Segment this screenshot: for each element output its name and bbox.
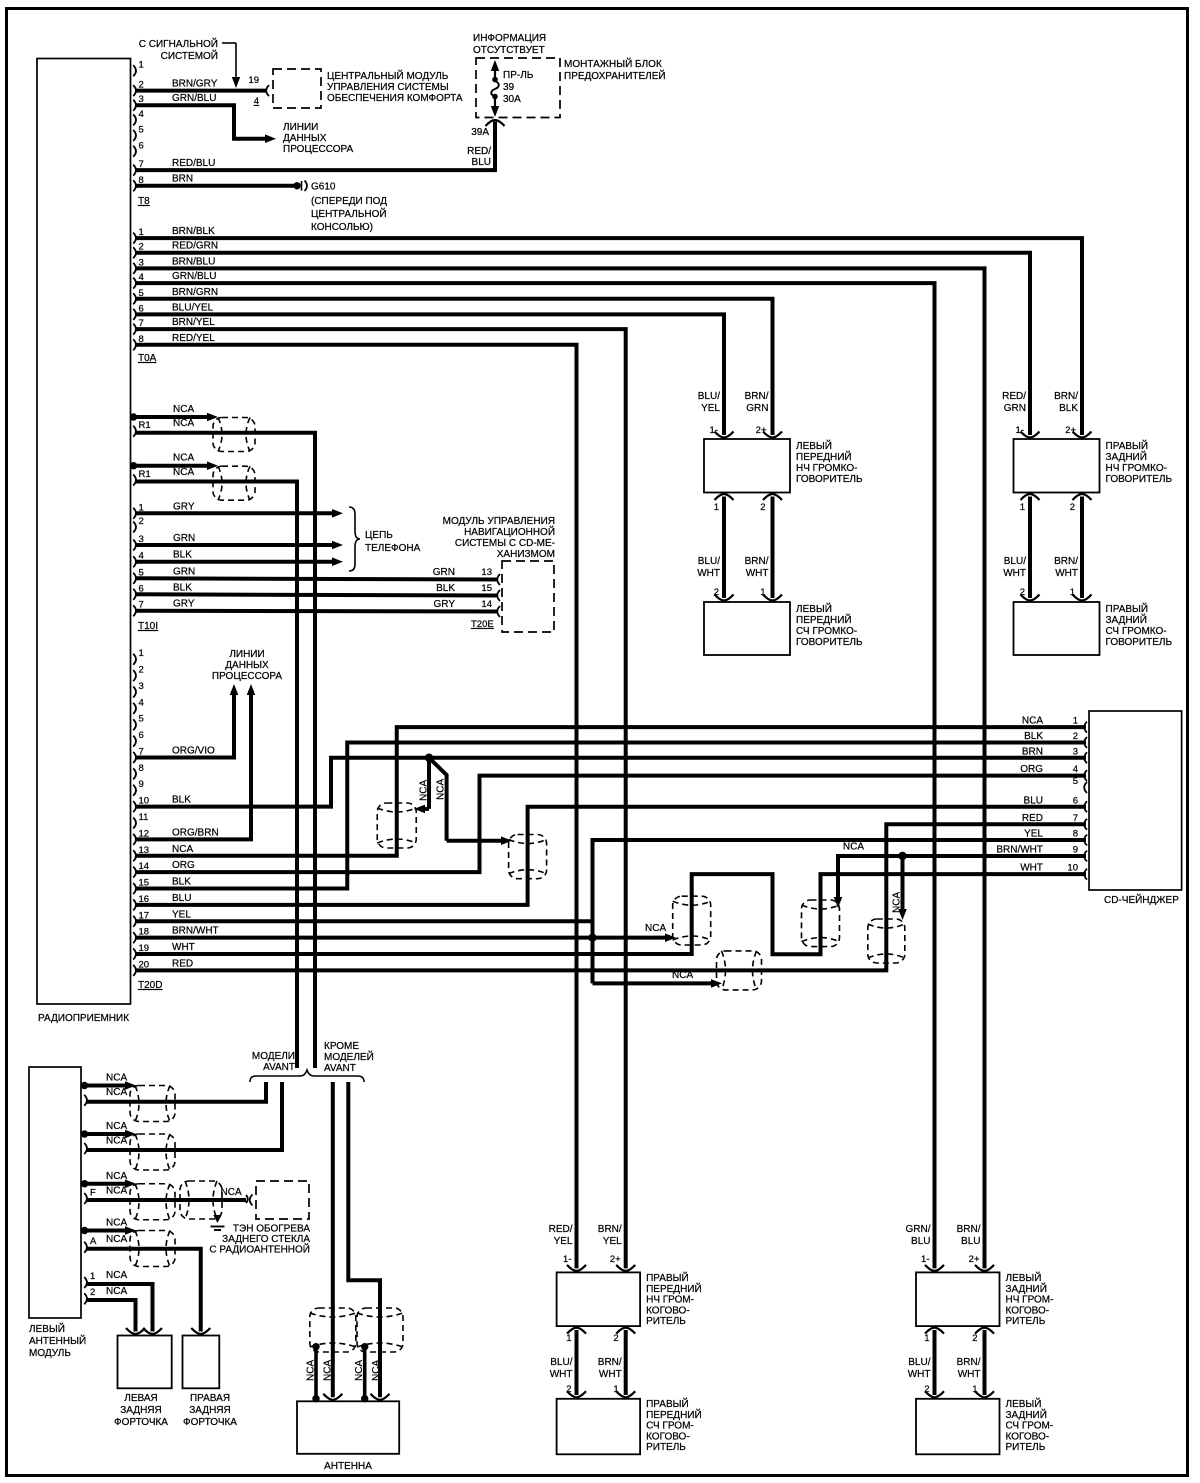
svg-text:СИСТЕМЫ С CD-МЕ-: СИСТЕМЫ С CD-МЕ-: [455, 538, 555, 549]
svg-text:NCA: NCA: [306, 1360, 317, 1381]
svg-text:BLU/: BLU/: [1004, 556, 1026, 567]
svg-text:NCA: NCA: [1022, 716, 1043, 727]
svg-text:ORG: ORG: [172, 860, 195, 871]
aerial lead NCA wire with shield: [130, 413, 137, 420]
svg-text:YEL: YEL: [1024, 829, 1043, 840]
antenna module NCA lead with shield: [81, 1180, 88, 1187]
svg-text:ЗАДНЯЯ: ЗАДНЯЯ: [189, 1405, 230, 1416]
svg-text:ДАННЫХ: ДАННЫХ: [225, 660, 269, 671]
svg-text:1: 1: [566, 1333, 571, 1344]
CD changer pin 6: [1084, 801, 1087, 812]
svg-text:NCA: NCA: [106, 1270, 127, 1281]
svg-text:BLU: BLU: [961, 1236, 980, 1247]
svg-text:11: 11: [139, 812, 149, 823]
svg-text:СЧ ГРОМКО-: СЧ ГРОМКО-: [796, 626, 857, 637]
svg-text:2: 2: [90, 1287, 95, 1298]
svg-text:ЗАДНИЙ: ЗАДНИЙ: [1106, 613, 1147, 626]
svg-text:10: 10: [1067, 863, 1078, 874]
svg-text:ПРОЦЕССОРА: ПРОЦЕССОРА: [212, 671, 282, 682]
svg-text:BLK: BLK: [172, 795, 191, 806]
svg-text:WHT: WHT: [958, 1369, 981, 1380]
svg-text:РИТЕЛЬ: РИТЕЛЬ: [646, 1316, 686, 1327]
rear window heater box (dashed): [256, 1181, 309, 1219]
svg-text:ПЕРЕДНИЙ: ПЕРЕДНИЙ: [796, 613, 852, 626]
junction node on BRN wire: [425, 754, 433, 762]
svg-text:ЗАДНИЙ: ЗАДНИЙ: [1106, 450, 1147, 463]
shield around WHT riser (right): [802, 900, 840, 947]
svg-text:1: 1: [139, 648, 144, 659]
svg-text:13: 13: [481, 567, 492, 578]
svg-text:ЛЕВЫЙ: ЛЕВЫЙ: [1006, 1271, 1042, 1284]
svg-text:30А: 30А: [503, 94, 521, 105]
svg-text:2+: 2+: [610, 1254, 621, 1265]
svg-text:1-: 1-: [921, 1254, 929, 1265]
T20D pin 14: [133, 867, 136, 878]
svg-text:BRN/: BRN/: [598, 1224, 622, 1235]
CD changer pin 8: [1084, 835, 1087, 846]
svg-text:GRN: GRN: [746, 403, 768, 414]
svg-text:GRY: GRY: [173, 599, 195, 610]
svg-text:BRN/: BRN/: [957, 1357, 981, 1368]
svg-text:NCA: NCA: [106, 1136, 127, 1147]
T20D pin 5: [133, 719, 136, 730]
antenna module pin 2 wire: [84, 1293, 87, 1304]
svg-text:КОГОВО-: КОГОВО-: [646, 1431, 690, 1442]
CD changer pin 1: [1084, 722, 1087, 733]
svg-text:NCA: NCA: [173, 467, 194, 478]
svg-text:BRN: BRN: [1022, 746, 1043, 757]
svg-text:УПРАВЛЕНИЯ СИСТЕМЫ: УПРАВЛЕНИЯ СИСТЕМЫ: [327, 82, 449, 93]
svg-text:8: 8: [139, 763, 144, 774]
wires GRN/BLK/GRY to navigation module T20E: [136, 578, 499, 579]
wire GRN/BLU T8 pin3 to processor data lines: [136, 105, 267, 139]
svg-text:КОГОВО-: КОГОВО-: [1006, 1305, 1050, 1316]
svg-text:С РАДИОАНТЕННОЙ: С РАДИОАНТЕННОЙ: [209, 1243, 310, 1256]
svg-text:BRN/: BRN/: [1054, 391, 1078, 402]
wires woofer to midrange: [722, 497, 726, 599]
T8 pin 1: [133, 65, 136, 76]
svg-text:BLK: BLK: [1059, 403, 1078, 414]
T10I pin 1: [133, 508, 136, 519]
svg-text:RED/: RED/: [1002, 391, 1026, 402]
wire non-avant branch to antenna right: [348, 1082, 380, 1397]
svg-text:1: 1: [1073, 716, 1078, 727]
aerial lead NCA wire with shield: [130, 462, 137, 469]
T20D pin 17: [133, 916, 136, 927]
T10I pin 3: [133, 540, 136, 551]
svg-text:ГОВОРИТЕЛЬ: ГОВОРИТЕЛЬ: [1106, 637, 1173, 648]
svg-text:НЧ ГРОМКО-: НЧ ГРОМКО-: [796, 463, 857, 474]
CD changer pin 3: [1084, 752, 1087, 763]
svg-text:ОТСУТСТВУЕТ: ОТСУТСТВУЕТ: [473, 45, 545, 56]
CD changer pin 4: [1084, 770, 1087, 781]
svg-text:1-: 1-: [563, 1254, 571, 1265]
svg-text:ПЕРЕДНИЙ: ПЕРЕДНИЙ: [646, 1282, 702, 1295]
svg-text:РИТЕЛЬ: РИТЕЛЬ: [1006, 1316, 1046, 1327]
wire 6 BLU/YEL to left-front woofer 1-: [136, 314, 725, 435]
wire YEL T20D pin17 joining vertical riser: [136, 919, 593, 923]
svg-text:КОНСОЛЬЮ): КОНСОЛЬЮ): [311, 222, 373, 233]
svg-text:2: 2: [1070, 502, 1075, 513]
svg-text:ЛЕВЫЙ: ЛЕВЫЙ: [1006, 1397, 1042, 1410]
svg-text:RED/: RED/: [467, 146, 491, 157]
svg-text:NCA: NCA: [106, 1218, 127, 1229]
T0A pin 1: [133, 233, 136, 244]
svg-text:BLU/: BLU/: [698, 391, 720, 402]
svg-text:ЛИНИИ: ЛИНИИ: [283, 122, 318, 133]
left rear vent window box: [118, 1336, 172, 1389]
ground G610: [293, 182, 300, 189]
wire RED T20D pin20 to CD pin7: [136, 824, 1087, 970]
svg-text:NCA: NCA: [106, 1087, 127, 1098]
svg-text:BRN/BLK: BRN/BLK: [172, 226, 215, 237]
svg-text:BLK: BLK: [173, 582, 192, 593]
svg-text:ЦЕНТРАЛЬНОЙ: ЦЕНТРАЛЬНОЙ: [311, 207, 387, 220]
svg-text:NCA: NCA: [106, 1234, 127, 1245]
antenna box АНТЕННА: [297, 1401, 399, 1454]
svg-text:ПРАВЫЙ: ПРАВЫЙ: [646, 1397, 689, 1410]
svg-text:GRN/BLU: GRN/BLU: [172, 271, 216, 282]
woofer box ЛЕВЫЙ НЧ ГРОМКО-: [704, 439, 790, 493]
svg-text:YEL: YEL: [172, 909, 191, 920]
svg-text:BLK: BLK: [1024, 731, 1043, 742]
svg-text:NCA: NCA: [371, 1360, 382, 1381]
T20D pin 18: [133, 932, 136, 943]
svg-text:КОГОВО-: КОГОВО-: [646, 1305, 690, 1316]
woofer box ПРАВЫЙ НЧ ГРОМ- (bottom): [557, 1272, 641, 1326]
svg-text:ORG/BRN: ORG/BRN: [172, 827, 219, 838]
svg-text:ЗАДНИЙ: ЗАДНИЙ: [1006, 1408, 1047, 1421]
svg-text:GRN/BLU: GRN/BLU: [172, 93, 216, 104]
wire A to right vent window: [87, 1249, 201, 1332]
svg-text:АНТЕННА: АНТЕННА: [324, 1461, 372, 1472]
svg-text:BRN/BLU: BRN/BLU: [172, 256, 215, 267]
svg-text:ФОРТОЧКА: ФОРТОЧКА: [114, 1417, 168, 1428]
CD changer pin 2: [1084, 737, 1087, 748]
T20D pin 7: [133, 752, 136, 763]
T20D pin 12: [133, 834, 136, 845]
svg-text:АНТЕННЫЙ: АНТЕННЫЙ: [29, 1334, 86, 1347]
wires GRY/GRN/BLK to telephone circuit: [136, 511, 334, 515]
T0A pin 4: [133, 278, 136, 289]
svg-text:BRN/GRY: BRN/GRY: [172, 79, 218, 90]
svg-text:2: 2: [613, 1333, 618, 1344]
svg-text:Т20D: Т20D: [138, 980, 162, 991]
svg-text:МОДЕЛЕЙ: МОДЕЛЕЙ: [324, 1050, 374, 1063]
svg-text:1: 1: [714, 502, 719, 513]
wires woofer to midrange (bottom): [933, 1330, 937, 1395]
NCA drains from BRN node (429): [427, 758, 431, 809]
svg-text:ПРОЦЕССОРА: ПРОЦЕССОРА: [283, 144, 353, 155]
svg-text:ПЕРЕДНИЙ: ПЕРЕДНИЙ: [646, 1408, 702, 1421]
svg-text:YEL: YEL: [603, 1236, 622, 1247]
T0A pin 6: [133, 309, 136, 320]
svg-text:ЛЕВЫЙ: ЛЕВЫЙ: [29, 1322, 65, 1335]
radio receiver РАДИОПРИЕМНИК box: [37, 59, 131, 1005]
svg-text:ПРЕДОХРАНИТЕЛЕЙ: ПРЕДОХРАНИТЕЛЕЙ: [564, 69, 666, 82]
wire BRN/WHT to CD pin9 with shield drain: [838, 856, 1086, 901]
svg-text:4: 4: [139, 109, 144, 120]
brace МОДЕЛИ AVANT / КРОМЕ МОДЕЛЕЙ AVANT: [250, 1070, 364, 1082]
wire BRN T8 pin8 to ground G610: [136, 184, 296, 188]
T10I pin 6: [133, 589, 136, 600]
svg-text:NCA: NCA: [419, 780, 430, 801]
woofer box ЛЕВЫЙ НЧ ГРОМ- (bottom): [916, 1272, 1000, 1326]
antenna module pin 1 wire: [84, 1277, 87, 1288]
svg-text:5: 5: [139, 714, 144, 725]
svg-text:5: 5: [139, 125, 144, 136]
svg-text:6: 6: [1073, 795, 1078, 806]
svg-text:GRN/: GRN/: [906, 1224, 931, 1235]
svg-text:8: 8: [1073, 829, 1078, 840]
svg-text:NCA: NCA: [892, 892, 903, 913]
T20D pin 11: [133, 818, 136, 829]
ground symbol: [211, 1226, 225, 1228]
svg-text:BLU: BLU: [172, 893, 191, 904]
shield drain left: [314, 1347, 318, 1399]
svg-text:1: 1: [90, 1271, 95, 1282]
T20D pin 9: [133, 785, 136, 796]
svg-text:GRY: GRY: [434, 599, 456, 610]
T8 pin 2: [133, 85, 136, 96]
svg-text:YEL: YEL: [701, 403, 720, 414]
svg-text:BLK: BLK: [172, 877, 191, 888]
svg-text:1: 1: [139, 60, 144, 71]
wire 8 RED/YEL to right-front woofer 1- (long): [136, 345, 577, 1269]
svg-text:НАВИГАЦИОННОЙ: НАВИГАЦИОННОЙ: [464, 525, 555, 538]
T0A pin 8: [133, 339, 136, 350]
NCA drain from CD9 node down: [901, 856, 905, 911]
wire ORG/VIO T20D pin7 to data lines: [136, 694, 235, 757]
wire WHT T20D pin19 to CD pin10: [136, 874, 1087, 954]
svg-text:1: 1: [924, 1333, 929, 1344]
svg-text:BLU/: BLU/: [550, 1357, 572, 1368]
svg-text:ОБЕСПЕЧЕНИЯ КОМФОРТА: ОБЕСПЕЧЕНИЯ КОМФОРТА: [327, 93, 463, 104]
svg-text:Т20Е: Т20Е: [471, 619, 494, 630]
signal system tap line and arrow: [222, 42, 236, 44]
T20D pin 13: [133, 850, 136, 861]
svg-text:9: 9: [139, 779, 144, 790]
svg-text:ПРАВЫЙ: ПРАВЫЙ: [1106, 602, 1149, 615]
svg-text:R1: R1: [139, 469, 151, 480]
svg-text:ИНФОРМАЦИЯ: ИНФОРМАЦИЯ: [473, 33, 546, 44]
svg-text:ПЕРЕДНИЙ: ПЕРЕДНИЙ: [796, 450, 852, 463]
svg-text:NCA: NCA: [354, 1360, 365, 1381]
svg-text:ФОРТОЧКА: ФОРТОЧКА: [183, 1417, 237, 1428]
svg-text:(СПЕРЕДИ ПОД: (СПЕРЕДИ ПОД: [311, 196, 387, 207]
telephone circuit brace: [349, 507, 360, 571]
svg-text:4: 4: [1073, 764, 1078, 775]
fuse box МОНТАЖНЫЙ БЛОК ПРЕДОХРАНИТЕЛЕЙ (dashed): [476, 58, 560, 118]
svg-text:ORG/VIO: ORG/VIO: [172, 745, 215, 756]
T8 pin 8: [133, 180, 136, 191]
svg-text:4: 4: [139, 697, 144, 708]
T10I pin 7: [133, 605, 136, 616]
antenna module pin wire NCA: [84, 1143, 87, 1154]
svg-text:ЦЕПЬ: ЦЕПЬ: [365, 530, 393, 541]
svg-text:СЧ ГРОМКО-: СЧ ГРОМКО-: [1106, 626, 1167, 637]
svg-text:ГОВОРИТЕЛЬ: ГОВОРИТЕЛЬ: [796, 474, 863, 485]
shield around WHT riser (left): [673, 896, 711, 945]
svg-text:РИТЕЛЬ: РИТЕЛЬ: [646, 1442, 686, 1453]
svg-text:GRN: GRN: [433, 567, 455, 578]
T20D pin 19: [133, 949, 136, 960]
midrange box ЛЕВЫЙ СЧ ГРОМКО-: [704, 602, 790, 655]
svg-text:GRN: GRN: [173, 566, 195, 577]
svg-text:BRN/: BRN/: [1054, 556, 1078, 567]
svg-text:4: 4: [254, 96, 259, 107]
T10I pin 5: [133, 573, 136, 584]
svg-text:G610: G610: [311, 182, 336, 193]
svg-text:9: 9: [1073, 845, 1078, 856]
midrange box ПРАВЫЙ СЧ ГРОМКО-: [1014, 602, 1100, 655]
svg-text:СЧ ГРОМ-: СЧ ГРОМ-: [1006, 1421, 1054, 1432]
svg-text:WHT: WHT: [746, 568, 769, 579]
wire non-avant branch to antenna left: [331, 1082, 335, 1397]
midrange box ЛЕВЫЙ СЧ ГРОМ- (bottom): [916, 1399, 1000, 1455]
svg-text:3: 3: [1073, 746, 1078, 757]
svg-text:CD-ЧЕЙНДЖЕР: CD-ЧЕЙНДЖЕР: [1104, 893, 1179, 906]
T20D pin 8: [133, 768, 136, 779]
svg-text:2: 2: [972, 1333, 977, 1344]
wire BRN/GRY T8 pin2 to comfort module pin19: [136, 89, 267, 93]
svg-text:RED/GRN: RED/GRN: [172, 241, 218, 252]
svg-text:НЧ ГРОМКО-: НЧ ГРОМКО-: [1106, 463, 1167, 474]
T0A pin 7: [133, 324, 136, 335]
svg-text:2+: 2+: [969, 1254, 980, 1265]
svg-text:ЗАДНИЙ: ЗАДНИЙ: [1006, 1282, 1047, 1295]
wire NCA T20D pin13 to CD pin1: [136, 727, 1087, 856]
svg-text:WHT: WHT: [550, 1369, 573, 1380]
shield around BLU riser: [509, 835, 547, 879]
antenna module NCA lead with shield: [81, 1227, 88, 1234]
wire 2 RED/GRN to right-rear woofer 1-: [136, 253, 1031, 435]
svg-text:1: 1: [1020, 502, 1025, 513]
svg-text:2: 2: [139, 516, 144, 527]
svg-text:BRN/: BRN/: [745, 556, 769, 567]
svg-text:BRN: BRN: [172, 174, 193, 185]
svg-text:Т8: Т8: [138, 196, 150, 207]
svg-text:7: 7: [1073, 813, 1078, 824]
svg-text:NCA: NCA: [645, 923, 666, 934]
svg-text:ТЕЛЕФОНА: ТЕЛЕФОНА: [365, 543, 421, 554]
svg-text:BLU: BLU: [911, 1236, 930, 1247]
CD changer box: [1089, 711, 1182, 890]
NCA shield drain south to RED shield: [593, 981, 713, 985]
svg-text:AVANT: AVANT: [324, 1063, 356, 1074]
svg-text:GRN: GRN: [173, 533, 195, 544]
svg-text:NCA: NCA: [173, 404, 194, 415]
svg-text:RED: RED: [1022, 813, 1043, 824]
svg-text:КОГОВО-: КОГОВО-: [1006, 1431, 1050, 1442]
T20D pin 3: [133, 686, 136, 697]
CD changer pin 10: [1084, 869, 1087, 880]
wire ORG T20D pin14 to CD pin4: [136, 776, 1087, 873]
svg-text:NCA: NCA: [106, 1286, 127, 1297]
svg-text:ЛЕВАЯ: ЛЕВАЯ: [124, 1393, 157, 1404]
right rear vent window box: [183, 1336, 220, 1389]
T20D pin 1: [133, 654, 136, 665]
svg-text:ХАНИЗМОМ: ХАНИЗМОМ: [497, 549, 555, 560]
svg-text:39А: 39А: [471, 127, 489, 138]
T8 pin 4: [133, 114, 136, 125]
CD changer pin 7: [1084, 819, 1087, 830]
svg-text:39: 39: [503, 82, 515, 93]
svg-text:GRN: GRN: [1004, 403, 1026, 414]
T8 pin 6: [133, 146, 136, 157]
svg-text:СИСТЕМОЙ: СИСТЕМОЙ: [161, 49, 218, 62]
svg-text:НЧ ГРОМ-: НЧ ГРОМ-: [646, 1295, 694, 1306]
ground drain from shield: [213, 1215, 221, 1223]
svg-text:GRY: GRY: [173, 501, 195, 512]
svg-text:R1: R1: [139, 420, 151, 431]
svg-text:RED/YEL: RED/YEL: [172, 333, 215, 344]
svg-text:РАДИОПРИЕМНИК: РАДИОПРИЕМНИК: [38, 1013, 129, 1024]
svg-text:YEL: YEL: [554, 1236, 573, 1247]
T20D pin 4: [133, 703, 136, 714]
svg-text:NCA: NCA: [106, 1186, 127, 1197]
svg-text:NCA: NCA: [106, 1121, 127, 1132]
wire RED/BLU T8 pin7 to fuse box: [136, 122, 496, 171]
svg-text:NCA: NCA: [221, 1187, 242, 1198]
shield on F lead: [180, 1181, 222, 1219]
svg-text:BRN/WHT: BRN/WHT: [172, 926, 219, 937]
svg-text:МОДУЛЬ: МОДУЛЬ: [29, 1348, 71, 1359]
svg-text:WHT: WHT: [1055, 568, 1078, 579]
svg-text:BLU/: BLU/: [908, 1357, 930, 1368]
svg-text:2: 2: [760, 502, 765, 513]
svg-text:WHT: WHT: [1020, 863, 1043, 874]
svg-text:Т10I: Т10I: [138, 621, 158, 632]
T20D pin 10: [133, 801, 136, 812]
svg-text:5: 5: [1073, 776, 1078, 787]
antenna feed shields: [310, 1308, 356, 1352]
T20D pin 6: [133, 736, 136, 747]
svg-text:NCA: NCA: [106, 1073, 127, 1084]
svg-text:WHT: WHT: [1003, 568, 1026, 579]
T0A pin 3: [133, 263, 136, 274]
wire 3 BRN/BLU to left-rear woofer 2+ (long): [136, 268, 985, 1268]
svg-text:ПРАВЫЙ: ПРАВЫЙ: [646, 1271, 689, 1284]
svg-text:WHT: WHT: [697, 568, 720, 579]
svg-text:RED/: RED/: [549, 1224, 573, 1235]
svg-text:BLK: BLK: [173, 550, 192, 561]
wire F NCA to rear window heater antenna: [87, 1198, 247, 1202]
T8 pin 3: [133, 100, 136, 111]
svg-text:NCA: NCA: [323, 1360, 334, 1381]
svg-text:BLU/: BLU/: [698, 556, 720, 567]
svg-text:НЧ ГРОМ-: НЧ ГРОМ-: [1006, 1295, 1054, 1306]
wire 4 GRN/BLU to left-rear woofer 1- (long): [136, 283, 935, 1268]
wire avant-models branch to antenna module pair2: [87, 1082, 282, 1150]
svg-text:A: A: [90, 1236, 97, 1247]
svg-text:BRN/GRN: BRN/GRN: [172, 287, 218, 298]
NCA shield drain from pin18 node east: [593, 936, 667, 940]
svg-text:NCA: NCA: [106, 1171, 127, 1182]
svg-text:ЦЕНТРАЛЬНЫЙ МОДУЛЬ: ЦЕНТРАЛЬНЫЙ МОДУЛЬ: [327, 69, 449, 82]
svg-text:ORG: ORG: [1020, 764, 1043, 775]
CD changer pin 5: [1084, 782, 1087, 793]
svg-text:МОДЕЛИ: МОДЕЛИ: [252, 1051, 295, 1062]
svg-text:BLK: BLK: [436, 583, 455, 594]
svg-text:BRN/: BRN/: [598, 1357, 622, 1368]
shield around RED riser: [868, 919, 905, 963]
svg-text:ПРАВАЯ: ПРАВАЯ: [190, 1393, 230, 1404]
shield around RED wire: [717, 951, 762, 990]
svg-text:ДАННЫХ: ДАННЫХ: [283, 133, 327, 144]
antenna module pin wire NCA: [84, 1242, 87, 1253]
shield drain right: [363, 1347, 367, 1399]
